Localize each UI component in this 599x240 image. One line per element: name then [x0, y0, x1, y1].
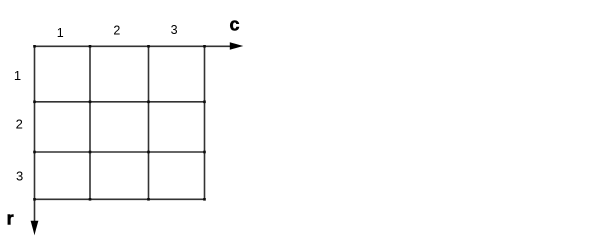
svg-text:r: r: [7, 209, 14, 229]
grid horizontal line 1 (top edge, extends into c-axis stem): [35, 45, 231, 47]
grid vertical line 2: [89, 46, 91, 199]
svg-text:2: 2: [113, 24, 120, 38]
svg-text:3: 3: [171, 23, 178, 37]
grid vertical line 4 (right edge): [204, 46, 206, 199]
svg-text:3: 3: [16, 169, 23, 184]
c-axis arrowhead (points right): [230, 42, 244, 49]
svg-text:1: 1: [57, 26, 64, 40]
svg-text:1: 1: [14, 68, 21, 83]
grid horizontal line 2: [35, 101, 205, 103]
grid vertical line 3: [148, 46, 150, 199]
grid horizontal line 4 (bottom edge): [35, 198, 205, 200]
r-axis arrowhead (points down): [31, 221, 39, 236]
junction dots at grid line intersections: [33, 45, 206, 201]
svg-text:c: c: [230, 15, 240, 35]
svg-text:2: 2: [16, 116, 23, 131]
grid horizontal line 3: [35, 151, 205, 153]
grid vertical line 1 (left edge, extends into r-axis stem): [34, 46, 36, 222]
